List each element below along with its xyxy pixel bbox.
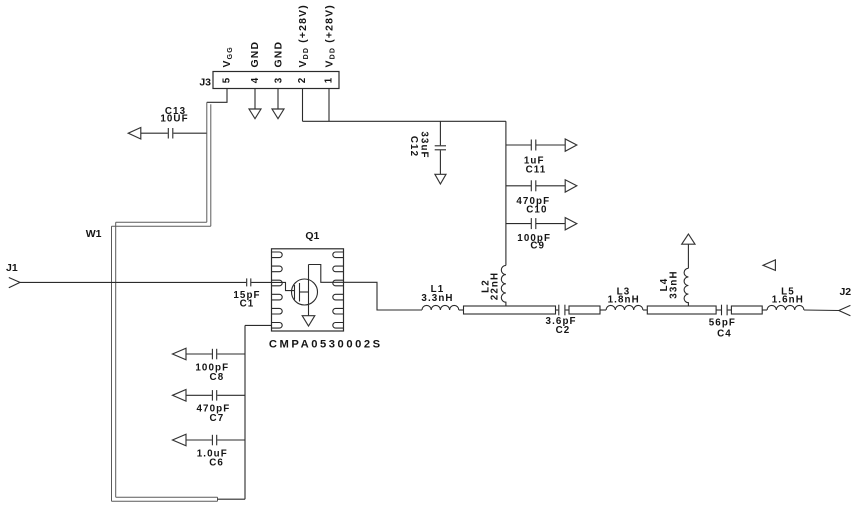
svg-text:4: 4 [250, 77, 261, 84]
svg-text:GND: GND [273, 41, 284, 68]
wire: J3 pin 2 stub [302, 89, 304, 122]
connector J2 arrow [839, 305, 851, 315]
arrow up L4 [682, 234, 695, 244]
svg-text:1: 1 [324, 77, 335, 84]
Q1 FET circle [292, 279, 318, 305]
Q1 FET vertical drain/source line [308, 265, 310, 316]
capacitor C11 lead right [536, 144, 565, 146]
wire W1 bottom horizontal [116, 496, 218, 498]
capacitor C13 lead right [173, 132, 207, 134]
svg-text:3: 3 [273, 77, 284, 84]
wire W1 thick trace (double line) right vertical [206, 102, 208, 222]
wire: C1 to Q1 gate pin [251, 281, 271, 283]
transmission line TL4 [731, 306, 762, 314]
wire: +28V vertical rail [505, 121, 507, 265]
ground arrow C12 [435, 174, 446, 184]
ground stub pin 4 [254, 89, 256, 110]
ground arrow C7 [173, 390, 187, 402]
wire: +28V horizontal rail [303, 120, 506, 122]
wire L4 up lead [687, 244, 689, 268]
svg-text:1.6nH: 1.6nH [772, 295, 804, 306]
Q1 FET channel to drain/source link [300, 291, 309, 293]
Q1 FET channel bar [299, 283, 301, 302]
svg-text:J1: J1 [6, 262, 18, 274]
capacitor C9 lead left [506, 223, 531, 225]
svg-text:10UF: 10UF [160, 114, 188, 125]
svg-text:C8: C8 [210, 372, 225, 383]
transistor Q1 package body [272, 249, 344, 331]
svg-text:1.8nH: 1.8nH [608, 295, 640, 306]
inductor L1 [422, 305, 459, 310]
capacitor C7 lead left [186, 394, 212, 396]
capacitor C6 plates [211, 435, 213, 446]
capacitor C11 lead left [506, 144, 531, 146]
wire L3 to TL3 [643, 309, 647, 311]
svg-text:2: 2 [297, 77, 308, 84]
ground arrow C8 [173, 348, 187, 360]
capacitor C6 lead left [186, 439, 212, 441]
ground arrow C6 [173, 434, 187, 446]
capacitor C13 plates [167, 128, 169, 139]
wire C4 to TL4 [728, 309, 732, 311]
Q1 FET gate bar [294, 285, 296, 300]
svg-text:33nH: 33nH [668, 270, 679, 298]
wire: J3 pin 5 stub down and left [207, 89, 227, 103]
capacitor C8 lead left [186, 353, 212, 355]
svg-text:Q1: Q1 [305, 230, 319, 242]
svg-text:C6: C6 [209, 458, 224, 469]
svg-text:W1: W1 [86, 228, 102, 240]
Q1 internal gate lead [272, 282, 295, 290]
wire: gate bias vertical rail [244, 325, 246, 499]
wire L5 to J2 [804, 309, 839, 312]
capacitor C8 lead right [217, 353, 245, 355]
capacitor C10 plates [530, 180, 532, 191]
svg-text:56pF: 56pF [709, 318, 736, 329]
wire TL2 to L3 [600, 309, 606, 311]
capacitor C9 lead right [536, 223, 565, 225]
wire L1 to TL1 [459, 309, 464, 311]
svg-text:C4: C4 [717, 328, 732, 339]
capacitor C12 plates [435, 145, 446, 147]
floating port arrow (left) [763, 260, 775, 271]
capacitor C4 plates [721, 305, 723, 316]
svg-text:5: 5 [222, 77, 233, 84]
inductor L3 [606, 305, 643, 310]
svg-text:C10: C10 [526, 204, 547, 215]
svg-text:J3: J3 [199, 77, 211, 89]
svg-text:C1: C1 [240, 298, 255, 309]
svg-text:C12: C12 [408, 136, 419, 157]
ground arrow C9 [565, 218, 577, 230]
transmission line TL2 [569, 306, 600, 314]
inductor L2 (vertical coil) [501, 265, 506, 306]
capacitor C6 lead right [217, 439, 245, 441]
ground arrow pin 3 [272, 109, 284, 119]
svg-text:C2: C2 [556, 325, 571, 336]
wire: Q1 drain out and down to output line [344, 282, 423, 310]
svg-text:22nH: 22nH [490, 272, 501, 300]
capacitor C13 lead left [141, 132, 168, 134]
inductor L5 [767, 305, 804, 310]
connector J3 body [213, 72, 339, 89]
wire TL1 to C2 [556, 309, 559, 311]
capacitor C12 bottom lead [439, 150, 441, 174]
svg-text:C11: C11 [526, 164, 547, 175]
wire: input line J1 to C1 [20, 281, 246, 283]
svg-text:GND: GND [250, 41, 261, 68]
Q1 internal source ground arrow [302, 316, 315, 326]
capacitor C7 lead right [217, 394, 245, 396]
ground arrow C11 [565, 139, 577, 151]
wire: bottom single segment to bias rail [218, 498, 246, 500]
svg-text:C9: C9 [530, 241, 545, 252]
ground arrow pin 4 [249, 109, 261, 119]
ground stub pin 3 [277, 89, 279, 110]
ground arrow C10 [565, 180, 577, 192]
wire TL4 to L5 [762, 309, 767, 311]
transmission line TL1 [464, 306, 556, 314]
capacitor C2 plates [558, 305, 560, 316]
ground arrow C13 [128, 128, 141, 140]
Q1 right pins [333, 252, 344, 328]
wire W1 middle horizontal jog [116, 221, 207, 223]
svg-text:CMPA0530002S: CMPA0530002S [269, 338, 383, 350]
wire: J3 pin 1 stub [328, 89, 330, 122]
capacitor C10 lead left [506, 185, 531, 187]
transmission line TL3 [647, 306, 716, 314]
capacitor C1 plates [246, 278, 248, 286]
capacitor C9 plates [530, 218, 532, 229]
inductor L4 (vertical coil) [684, 268, 688, 306]
wire C2 to TL2 [565, 309, 569, 311]
wire: rail to Q1 lower-left pin [245, 324, 272, 326]
capacitor C7 plates [211, 390, 213, 401]
capacitor C8 plates [211, 349, 213, 360]
Q1 internal drain step [309, 265, 344, 283]
svg-text:3.3nH: 3.3nH [421, 293, 453, 304]
capacitor C12 top lead [439, 121, 441, 145]
capacitor C11 plates [530, 140, 532, 151]
svg-text:J2: J2 [839, 286, 851, 298]
wire TL3 to C4 [716, 309, 721, 311]
wire W1 left vertical [111, 226, 113, 501]
svg-text:C7: C7 [210, 413, 225, 424]
connector J1 arrow [9, 278, 20, 288]
capacitor C10 lead right [536, 185, 565, 187]
Q1 left pins [272, 252, 283, 328]
